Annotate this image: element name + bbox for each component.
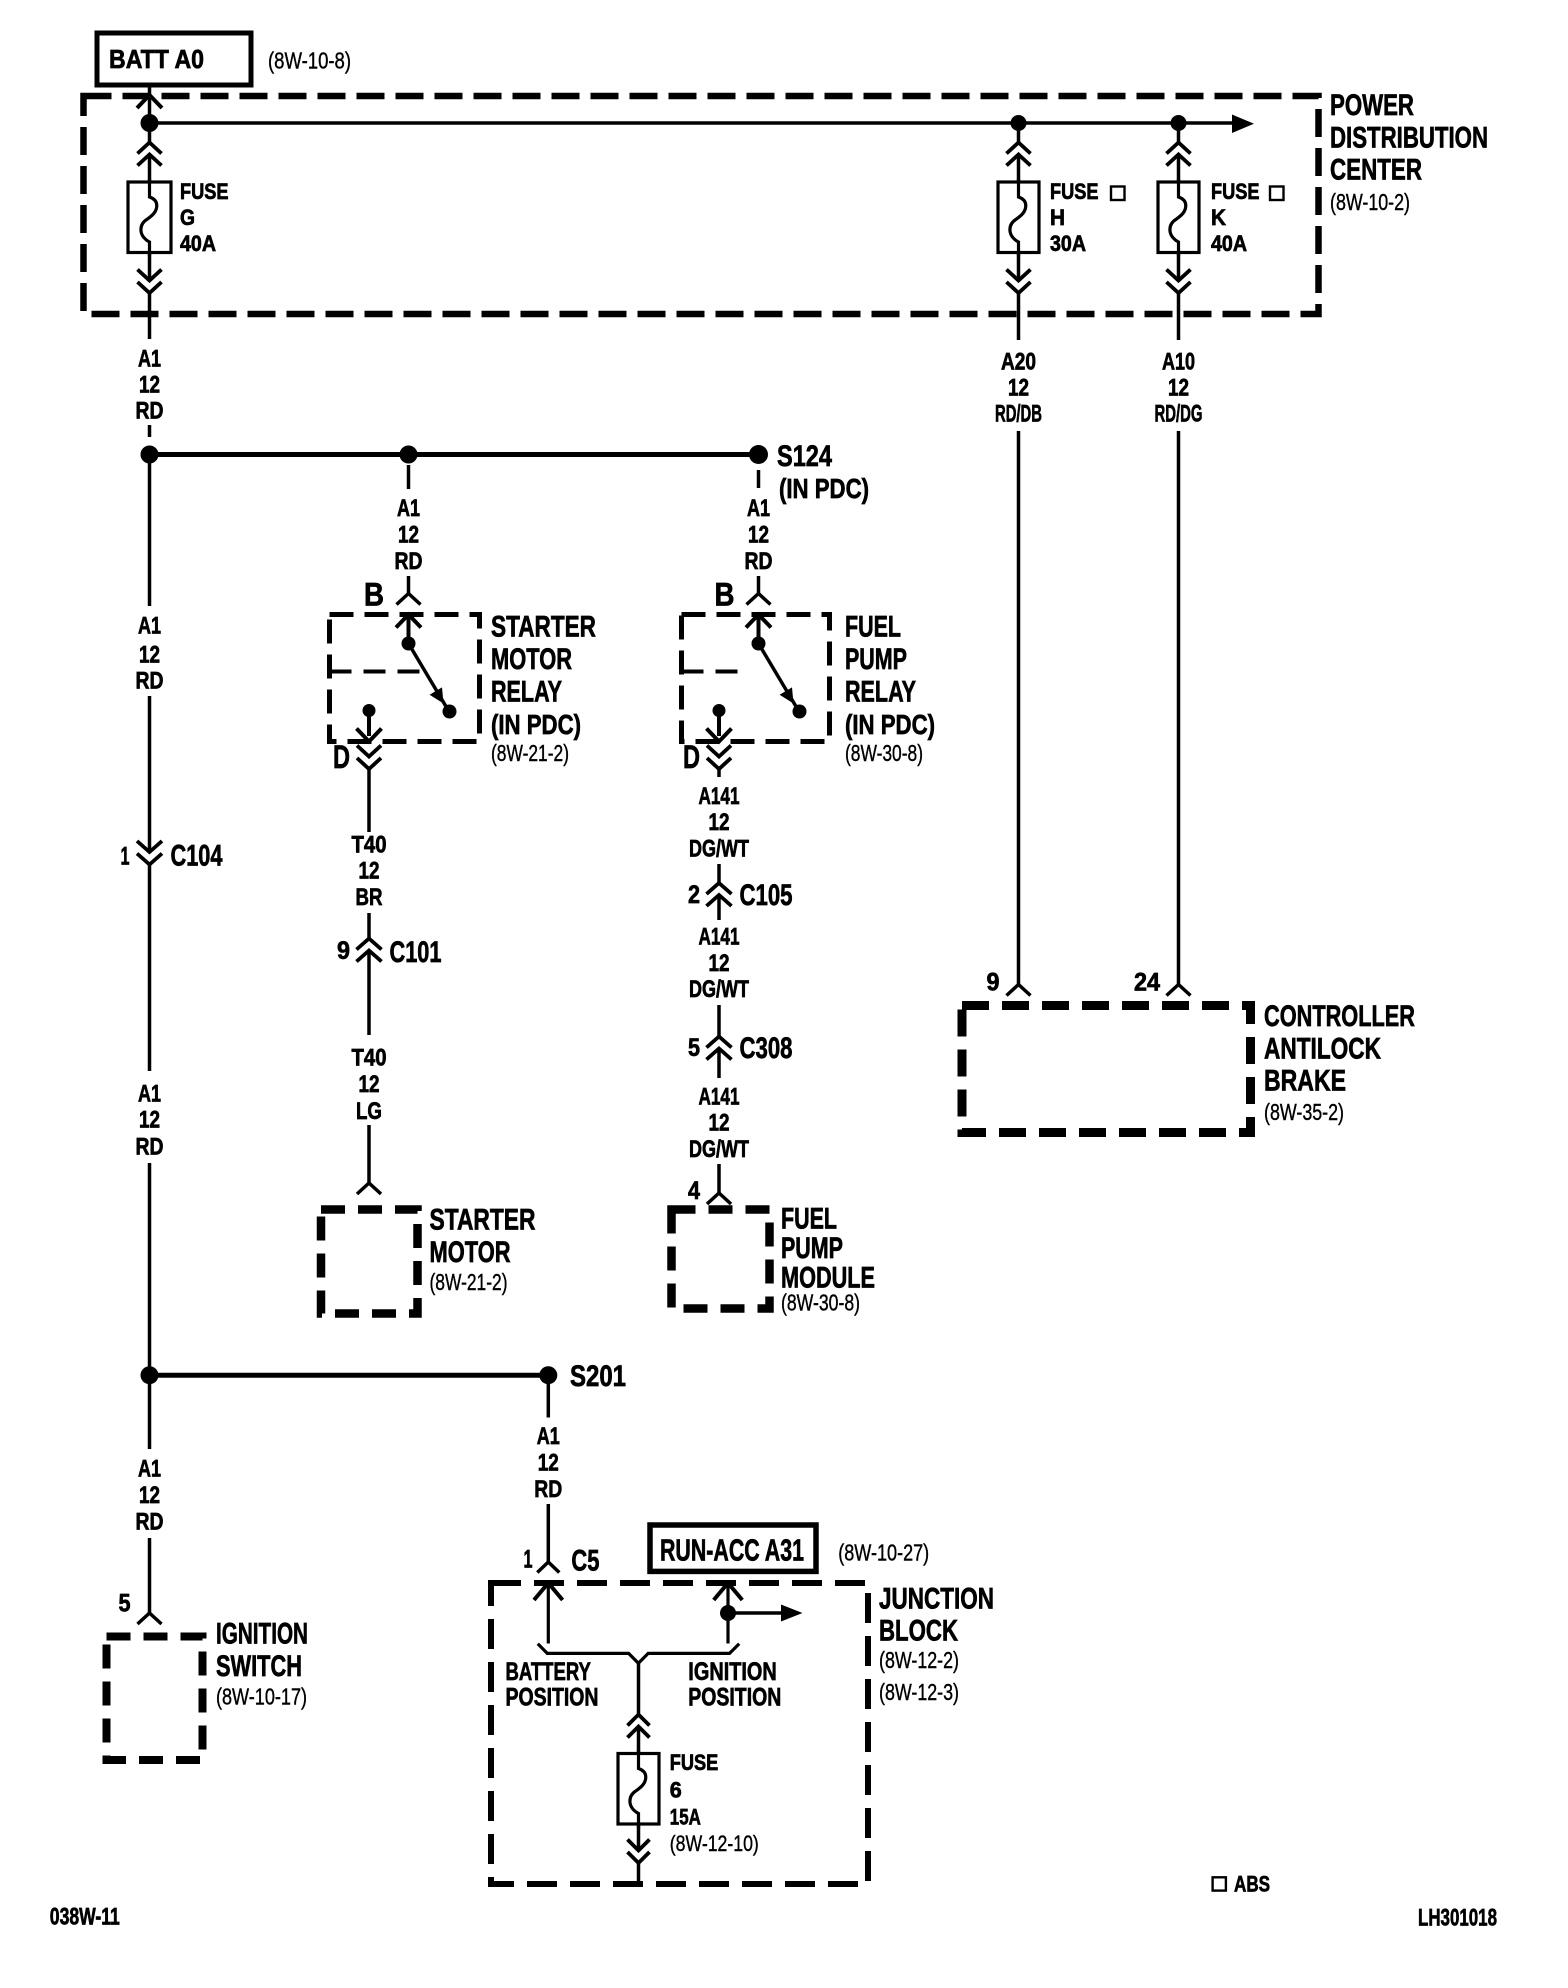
wire label A141 12 DG/WT below C105 <box>689 924 749 1003</box>
svg-text:FUSE: FUSE <box>1050 179 1099 204</box>
svg-text:DISTRIBUTION: DISTRIBUTION <box>1330 121 1488 154</box>
svg-text:(IN PDC): (IN PDC) <box>779 473 869 504</box>
svg-text:24: 24 <box>1134 969 1160 997</box>
svg-text:STARTER: STARTER <box>491 611 596 644</box>
wire A20 from fuse H to controller pin 9 <box>1017 431 1021 985</box>
wire segment into connector C104 <box>148 696 152 852</box>
fuel pump relay common contact arrow <box>746 615 771 651</box>
fuel pump relay switch arm <box>759 644 807 719</box>
wire segment into connector C101 <box>367 913 371 939</box>
fuse K 40A <box>1158 178 1284 257</box>
svg-text:6: 6 <box>670 1778 682 1803</box>
svg-text:12: 12 <box>538 1450 559 1477</box>
svg-text:FUSE: FUSE <box>1211 179 1260 204</box>
svg-text:BLOCK: BLOCK <box>879 1615 958 1648</box>
svg-text:A1: A1 <box>537 1423 560 1450</box>
svg-text:12: 12 <box>359 858 380 885</box>
connector symbol above fuse G <box>138 123 162 182</box>
svg-text:JUNCTION: JUNCTION <box>879 1583 994 1616</box>
svg-text:IGNITION: IGNITION <box>216 1618 308 1651</box>
svg-text:RELAY: RELAY <box>845 675 916 708</box>
reference (8W-10-8) <box>268 48 351 74</box>
svg-text:(8W-10-8): (8W-10-8) <box>268 48 351 74</box>
wire label A1 12 RD above C104 <box>136 613 164 695</box>
splice S201 <box>539 1360 626 1393</box>
wire label A1 12 RD below C104 <box>136 1081 164 1161</box>
svg-text:CONTROLLER: CONTROLLER <box>1264 1000 1415 1033</box>
connector symbol above fuse H <box>1007 123 1031 182</box>
wire label A1 12 RD at fuel pump relay <box>745 495 773 575</box>
pin D of fuel pump relay <box>683 739 731 777</box>
label FUEL PUMP MODULE (8W-30-8) <box>781 1203 875 1316</box>
svg-text:BR: BR <box>356 884 383 911</box>
pin B of starter motor relay <box>364 576 421 613</box>
svg-text:D: D <box>683 739 700 775</box>
svg-text:(IN PDC): (IN PDC) <box>845 709 935 740</box>
in-line connector C101 pin 9 <box>337 936 442 1035</box>
svg-text:DG/WT: DG/WT <box>689 835 749 862</box>
svg-text:(8W-10-2): (8W-10-2) <box>1330 189 1410 215</box>
wire into fuel pump module pin 4 <box>688 1164 731 1205</box>
svg-text:15A: 15A <box>670 1805 701 1830</box>
svg-text:RD: RD <box>136 1509 164 1536</box>
svg-text:ABS: ABS <box>1234 1872 1270 1897</box>
fuse G 40A <box>128 178 229 257</box>
svg-text:RD: RD <box>745 548 773 575</box>
connector symbol above fuse K <box>1167 123 1191 182</box>
footer sheet number 038W-11 <box>50 1903 120 1930</box>
svg-text:12: 12 <box>709 809 730 836</box>
svg-text:9: 9 <box>337 937 350 965</box>
svg-text:(8W-12-3): (8W-12-3) <box>879 1679 959 1705</box>
svg-text:POSITION: POSITION <box>688 1683 781 1711</box>
starter motor relay switch arm <box>409 644 457 719</box>
reference (8W-10-27) <box>838 1540 929 1566</box>
svg-text:12: 12 <box>1008 375 1029 402</box>
in-line connector C104 pin 1 <box>121 840 223 873</box>
wire label A1 12 RD at junction block <box>534 1423 562 1503</box>
svg-text:G: G <box>180 205 195 230</box>
node splice above ignition switch <box>141 1366 159 1384</box>
svg-text:038W-11: 038W-11 <box>50 1903 120 1930</box>
svg-text:D: D <box>333 739 350 775</box>
svg-text:H: H <box>1050 205 1065 230</box>
label BATTERY POSITION <box>506 1658 599 1712</box>
svg-text:C5: C5 <box>571 1545 599 1578</box>
in-line connector C308 pin 5 <box>688 1032 793 1078</box>
svg-text:RD/DB: RD/DB <box>995 401 1042 428</box>
svg-text:POWER: POWER <box>1330 89 1414 122</box>
wire into starter motor <box>357 1125 381 1194</box>
svg-text:RD: RD <box>136 668 164 695</box>
wire label T40 12 LG <box>352 1045 387 1126</box>
splice bus wire S124 <box>150 452 759 457</box>
wire segment into connector C308 <box>717 1005 721 1037</box>
svg-text:A141: A141 <box>699 783 740 810</box>
fuel pump relay box <box>682 615 830 742</box>
label FUEL PUMP RELAY (IN PDC) (8W-30-8) <box>845 611 935 766</box>
svg-text:DG/WT: DG/WT <box>689 976 749 1003</box>
fuel pump relay internal divider <box>682 670 746 674</box>
feed RUN-ACC A31 box <box>650 1525 816 1571</box>
svg-text:B: B <box>715 577 735 613</box>
starter motor box <box>321 1210 418 1314</box>
svg-text:BRAKE: BRAKE <box>1264 1065 1346 1098</box>
node above fuse K <box>1171 115 1187 131</box>
svg-text:12: 12 <box>139 642 160 669</box>
svg-text:SWITCH: SWITCH <box>216 1650 302 1683</box>
svg-text:RD: RD <box>136 1134 164 1161</box>
wire into ignition switch pin 5 <box>119 1538 162 1624</box>
label STARTER MOTOR RELAY (IN PDC) (8W-21-2) <box>491 611 596 766</box>
svg-text:RELAY: RELAY <box>491 675 562 708</box>
legend ABS checkbox <box>1213 1872 1270 1897</box>
wire label A1 12 RD at ignition switch <box>136 1456 164 1536</box>
power feed BATT A0 box <box>97 33 251 85</box>
svg-text:C104: C104 <box>171 840 223 873</box>
svg-text:1: 1 <box>121 842 130 870</box>
svg-text:5: 5 <box>119 1590 131 1618</box>
starter motor relay coil-side contact to pin D <box>357 704 382 742</box>
svg-text:BATT A0: BATT A0 <box>109 44 204 74</box>
wire label A10 12 RD/DG circuit from fuse K <box>1155 349 1203 428</box>
wire from switch bracket to fuse 6 <box>628 1663 650 1754</box>
svg-text:POSITION: POSITION <box>506 1683 599 1711</box>
svg-text:RD: RD <box>136 398 164 425</box>
connector symbol below fuse K <box>1167 253 1191 341</box>
svg-text:12: 12 <box>139 372 160 399</box>
svg-text:A10: A10 <box>1162 349 1195 376</box>
svg-text:12: 12 <box>398 522 419 549</box>
svg-text:LG: LG <box>356 1098 382 1125</box>
fuel pump relay coil-side contact to pin D <box>707 704 732 742</box>
connector symbol below fuse G <box>138 253 162 340</box>
svg-text:DG/WT: DG/WT <box>689 1136 749 1163</box>
svg-text:FUSE: FUSE <box>180 179 229 204</box>
svg-text:RD: RD <box>395 548 423 575</box>
svg-text:(8W-30-8): (8W-30-8) <box>781 1289 860 1315</box>
svg-text:C308: C308 <box>740 1032 793 1065</box>
svg-text:A1: A1 <box>138 346 161 373</box>
svg-text:(8W-10-17): (8W-10-17) <box>216 1684 307 1710</box>
label IGNITION POSITION <box>688 1658 781 1712</box>
node at top of fuse G <box>141 114 159 132</box>
svg-text:T40: T40 <box>352 832 387 859</box>
svg-text:12: 12 <box>359 1071 380 1098</box>
node splice above starter motor relay <box>400 446 418 464</box>
svg-text:(8W-21-2): (8W-21-2) <box>430 1269 508 1295</box>
svg-text:(8W-10-27): (8W-10-27) <box>838 1540 929 1566</box>
svg-text:12: 12 <box>1168 375 1189 402</box>
controller antilock brake box <box>962 1006 1251 1133</box>
svg-text:A141: A141 <box>699 924 740 951</box>
svg-text:BATTERY: BATTERY <box>506 1658 592 1686</box>
svg-text:CENTER: CENTER <box>1330 154 1422 187</box>
connector symbol below fuse 6 <box>628 1824 650 1884</box>
wire BATT A0 to node, with arrow into feed box <box>137 85 162 120</box>
arrow feed to other circuits <box>728 1605 803 1622</box>
svg-text:40A: 40A <box>1211 231 1247 256</box>
svg-text:40A: 40A <box>180 231 216 256</box>
svg-text:5: 5 <box>688 1034 700 1062</box>
svg-text:12: 12 <box>748 522 769 549</box>
svg-text:A1: A1 <box>747 495 770 522</box>
wire A1 from splice toward ignition switch <box>148 463 152 606</box>
splice bus wire S201 <box>150 1373 549 1378</box>
svg-text:(8W-12-2): (8W-12-2) <box>879 1647 959 1673</box>
wire segment from RD label down to splice S201 bus <box>148 1163 152 1375</box>
wire stub below splice to starter motor relay label <box>407 465 411 489</box>
svg-text:(8W-30-8): (8W-30-8) <box>845 740 923 766</box>
svg-text:FUEL: FUEL <box>845 611 901 644</box>
label POWER DISTRIBUTION CENTER (8W-10-2) <box>1330 89 1488 215</box>
svg-text:4: 4 <box>688 1177 700 1205</box>
svg-text:MOTOR: MOTOR <box>491 643 572 676</box>
node on ignition feed <box>720 1605 736 1621</box>
svg-text:T40: T40 <box>352 1045 387 1072</box>
Power Distribution Center enclosure <box>84 96 1319 314</box>
pin D of starter motor relay <box>333 739 381 832</box>
svg-text:FUEL: FUEL <box>781 1203 837 1236</box>
svg-text:IGNITION: IGNITION <box>688 1658 777 1686</box>
fuse 6 15A <box>618 1750 759 1857</box>
svg-text:A1: A1 <box>138 1456 161 1483</box>
connector symbol below fuse H <box>1007 253 1031 341</box>
label STARTER MOTOR (8W-21-2) <box>430 1204 536 1295</box>
label CONTROLLER ANTILOCK BRAKE (8W-35-2) <box>1264 1000 1415 1125</box>
wire label A20 12 RD/DB circuit from fuse H <box>995 349 1042 428</box>
svg-text:S124: S124 <box>777 440 832 473</box>
svg-text:A1: A1 <box>397 495 420 522</box>
svg-text:FUSE: FUSE <box>670 1750 719 1775</box>
svg-text:S201: S201 <box>570 1360 626 1393</box>
wire label A141 12 DG/WT below C308 <box>689 1083 749 1162</box>
svg-text:PUMP: PUMP <box>781 1232 843 1265</box>
wire below splice S201 toward ignition switch <box>148 1384 152 1449</box>
wire stub below splice S124 to fuel pump relay <box>757 470 761 488</box>
wire internal PDC bus to fuses H and K with arrow <box>150 115 1255 134</box>
splice S124 (IN PDC) <box>749 440 869 504</box>
svg-text:12: 12 <box>709 950 730 977</box>
starter motor relay internal divider <box>330 670 426 674</box>
svg-text:C101: C101 <box>390 936 442 969</box>
svg-text:(IN PDC): (IN PDC) <box>491 709 581 740</box>
junction block ignition feed arrow from RUN-ACC <box>714 1583 743 1644</box>
svg-text:A20: A20 <box>1001 349 1036 376</box>
fuel pump module box <box>672 1210 770 1309</box>
in-line connector C105 pin 2 <box>688 879 793 920</box>
svg-text:STARTER: STARTER <box>430 1204 536 1237</box>
svg-text:MOTOR: MOTOR <box>430 1236 511 1269</box>
svg-text:(8W-21-2): (8W-21-2) <box>491 740 569 766</box>
pin 24 of controller antilock brake <box>1134 969 1191 997</box>
svg-text:A141: A141 <box>699 1083 740 1110</box>
svg-text:A1: A1 <box>138 1081 161 1108</box>
wire stub into splice S124 bus <box>148 425 152 437</box>
svg-text:LH301018: LH301018 <box>1418 1904 1497 1931</box>
junction block box <box>491 1583 868 1884</box>
wire label A1 12 RD at starter motor relay <box>395 495 423 575</box>
junction block battery feed arrow from C5 <box>534 1583 563 1644</box>
svg-text:ANTILOCK: ANTILOCK <box>1264 1032 1381 1065</box>
svg-text:RD: RD <box>534 1476 562 1503</box>
starter motor relay box <box>330 615 480 742</box>
svg-text:K: K <box>1211 205 1226 230</box>
svg-text:A1: A1 <box>138 613 161 640</box>
svg-text:PUMP: PUMP <box>845 643 907 676</box>
wire label A1 12 RD circuit from fuse G <box>136 346 164 425</box>
svg-text:30A: 30A <box>1050 231 1086 256</box>
label JUNCTION BLOCK (8W-12-2) (8W-12-3) <box>879 1583 994 1706</box>
fuse H 30A <box>998 178 1125 257</box>
svg-text:RD/DG: RD/DG <box>1155 401 1203 428</box>
svg-text:1: 1 <box>524 1546 533 1574</box>
wire segment into connector C105 <box>717 864 721 884</box>
wire stub below splice S201 to junction block <box>547 1384 551 1418</box>
wire A10 from fuse K to controller pin 24 <box>1177 431 1181 985</box>
svg-text:12: 12 <box>139 1482 160 1509</box>
node splice at left of S124 bus <box>141 446 159 464</box>
svg-text:C105: C105 <box>740 879 793 912</box>
node above fuse H <box>1011 115 1027 131</box>
svg-text:9: 9 <box>987 969 1000 997</box>
svg-text:12: 12 <box>139 1107 160 1134</box>
svg-text:(8W-35-2): (8W-35-2) <box>1264 1099 1344 1125</box>
svg-text:(8W-12-10): (8W-12-10) <box>670 1831 759 1856</box>
wire label A141 12 DG/WT above C105 <box>689 783 749 862</box>
svg-text:RUN-ACC A31: RUN-ACC A31 <box>660 1533 804 1568</box>
starter motor relay common contact arrow <box>396 615 421 651</box>
pin B of fuel pump relay <box>715 576 771 613</box>
wire segment below C104 <box>148 865 152 1072</box>
wire label T40 12 BR <box>352 832 387 912</box>
connector C5 pin 1 into junction block <box>524 1504 600 1578</box>
pin 9 of controller antilock brake <box>987 969 1031 997</box>
svg-text:2: 2 <box>688 881 700 909</box>
label IGNITION SWITCH (8W-10-17) <box>216 1618 308 1710</box>
svg-text:12: 12 <box>709 1110 730 1137</box>
ignition switch box <box>107 1637 203 1761</box>
switch bracket battery/ignition position <box>538 1644 739 1663</box>
svg-text:B: B <box>364 577 384 613</box>
footer drawing number LH301018 <box>1418 1904 1497 1931</box>
